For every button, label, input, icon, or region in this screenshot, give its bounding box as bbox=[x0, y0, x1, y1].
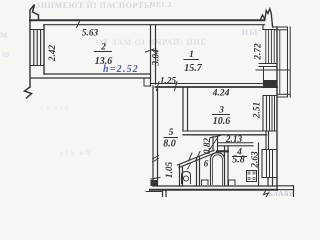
svg-text:0.82: 0.82 bbox=[203, 138, 213, 155]
svg-text:2.63: 2.63 bbox=[251, 151, 261, 169]
window W3 hatch lines bbox=[269, 96, 271, 132]
svg-text:6: 6 bbox=[204, 159, 209, 169]
svg-text:7: 7 bbox=[186, 162, 191, 172]
window W4 (kitchen right wall) sills bbox=[262, 149, 277, 151]
left wall inner line bbox=[43, 25, 45, 74]
bottom-right wall continuation bbox=[277, 185, 294, 187]
left wall outer line bbox=[29, 20, 31, 87]
svg-text:10.6: 10.6 bbox=[213, 116, 231, 127]
svg-text:4.24: 4.24 bbox=[212, 88, 230, 99]
break mark bottom-right bbox=[264, 190, 269, 197]
svg-text:2.13: 2.13 bbox=[225, 135, 243, 145]
watermark bleed-through text top bbox=[36, 0, 172, 10]
svg-text:ОТ ЗАМ ОІ ИЧРАП) ИНЕ: ОТ ЗАМ ОІ ИЧРАП) ИНЕ bbox=[96, 38, 207, 47]
corridor left wall (lower part of divider) bbox=[152, 86, 154, 186]
svg-text:2.72: 2.72 bbox=[254, 43, 264, 61]
balcony door pier (solid) bbox=[263, 80, 277, 88]
wall segment below kitchen window bbox=[267, 178, 269, 187]
bottom outer wall bbox=[153, 185, 277, 187]
balcony door jamb line bbox=[263, 67, 265, 81]
kitchen top wall bbox=[218, 142, 254, 144]
bathroom top-right connector wall bbox=[217, 150, 228, 152]
svg-text:уІд вЦ: уІд вЦ bbox=[60, 149, 93, 157]
tick on stub wall bbox=[210, 136, 221, 139]
kitchen left wall / bathroom right wall bbox=[224, 146, 226, 186]
watermark faint smudge mid-left bbox=[2, 51, 93, 157]
window W1 hatch lines bbox=[265, 30, 267, 64]
dimension tick on top wall (5.63) bbox=[77, 22, 80, 28]
svg-text:15.7: 15.7 bbox=[184, 63, 203, 74]
room 7 left wall bbox=[179, 165, 181, 186]
squiggle mark on corridor left wall bbox=[153, 156, 159, 163]
svg-text:2.51: 2.51 bbox=[253, 102, 263, 119]
svg-text:h=2.52: h=2.52 bbox=[103, 64, 139, 75]
ticks on diagonal wall bbox=[189, 153, 193, 161]
dimension ticks 1.25 bbox=[157, 82, 160, 91]
balcony outline bbox=[273, 26, 288, 28]
svg-text:М: М bbox=[0, 31, 8, 40]
passage stub wall (hall to kitchen) bbox=[212, 137, 214, 152]
corridor top wall / room1 bottom wall / room3 top wall bbox=[151, 83, 278, 85]
sink block left of bathtub bbox=[202, 180, 209, 185]
window W4 hatch lines bbox=[266, 150, 268, 178]
wall between rooms 2 and 1 bbox=[150, 25, 152, 86]
svg-text:ЧЕСЗ: ЧЕСЗ bbox=[150, 0, 172, 9]
bathroom door leaf bbox=[208, 139, 217, 153]
room 2 bottom wall bbox=[44, 73, 151, 75]
break symbol top-right bbox=[261, 9, 273, 27]
dimension tick on divider wall bbox=[146, 49, 155, 52]
passage end wall right (below room 3) bbox=[265, 131, 267, 150]
vent shaft block below room 2 bbox=[144, 78, 151, 86]
toilet in room 7 bbox=[182, 172, 191, 184]
sink block in kitchen bbox=[229, 180, 236, 185]
right wall outer line bbox=[276, 27, 278, 190]
room 3 left wall bbox=[182, 87, 184, 131]
svg-text:1: 1 bbox=[189, 50, 194, 60]
top wall inner line bbox=[44, 24, 265, 26]
pier at bottom of corridor left wall bbox=[151, 180, 159, 186]
svg-text:пв нтп: пв нтп bbox=[40, 104, 70, 112]
window W2 hatch lines bbox=[33, 30, 35, 66]
room 3 bottom wall bbox=[183, 130, 267, 132]
diagonal wall over rooms 7 and 6 bbox=[178, 150, 215, 165]
svg-text:8.0: 8.0 bbox=[163, 139, 176, 150]
balcony door sill line bbox=[256, 69, 290, 71]
stove in kitchen bbox=[247, 171, 257, 182]
svg-text:09: 09 bbox=[2, 51, 10, 59]
svg-text:1.05: 1.05 bbox=[165, 162, 175, 179]
balcony inner edge line bbox=[279, 30, 281, 95]
svg-text:ИЫ: ИЫ bbox=[242, 28, 258, 37]
bathtub in room 6 bbox=[211, 153, 225, 185]
break symbol top-left bbox=[30, 5, 39, 22]
right wall inner lines (rooms 1,3,4) bbox=[262, 25, 264, 30]
svg-text:5: 5 bbox=[169, 128, 174, 138]
window W1 (room 1 right wall) sills bbox=[263, 29, 277, 31]
stairwell wall below bottom wall bbox=[162, 190, 164, 197]
svg-text:5.63: 5.63 bbox=[82, 29, 99, 39]
window W2 sills (left wall, room 2) bbox=[30, 29, 44, 31]
svg-text:1.25: 1.25 bbox=[160, 77, 177, 87]
watermark bleed-through row 2 bbox=[0, 28, 258, 47]
svg-text:2.42: 2.42 bbox=[48, 45, 58, 63]
paper background bbox=[0, 0, 300, 197]
svg-text:ЗНИМЕЮТ ЙІ ПАСПОРТЫ: ЗНИМЕЮТ ЙІ ПАСПОРТЫ bbox=[36, 1, 152, 10]
break symbol bottom-left bbox=[25, 87, 32, 98]
dimension tick 1.05 bottom bbox=[151, 178, 160, 180]
svg-text:3.04: 3.04 bbox=[152, 49, 162, 67]
svg-text:5.8: 5.8 bbox=[232, 155, 245, 166]
wall between rooms 7 and 6 bbox=[196, 158, 198, 186]
window W3 (room 3 right wall) sills bbox=[263, 95, 277, 97]
top wall outer line bbox=[30, 19, 265, 21]
